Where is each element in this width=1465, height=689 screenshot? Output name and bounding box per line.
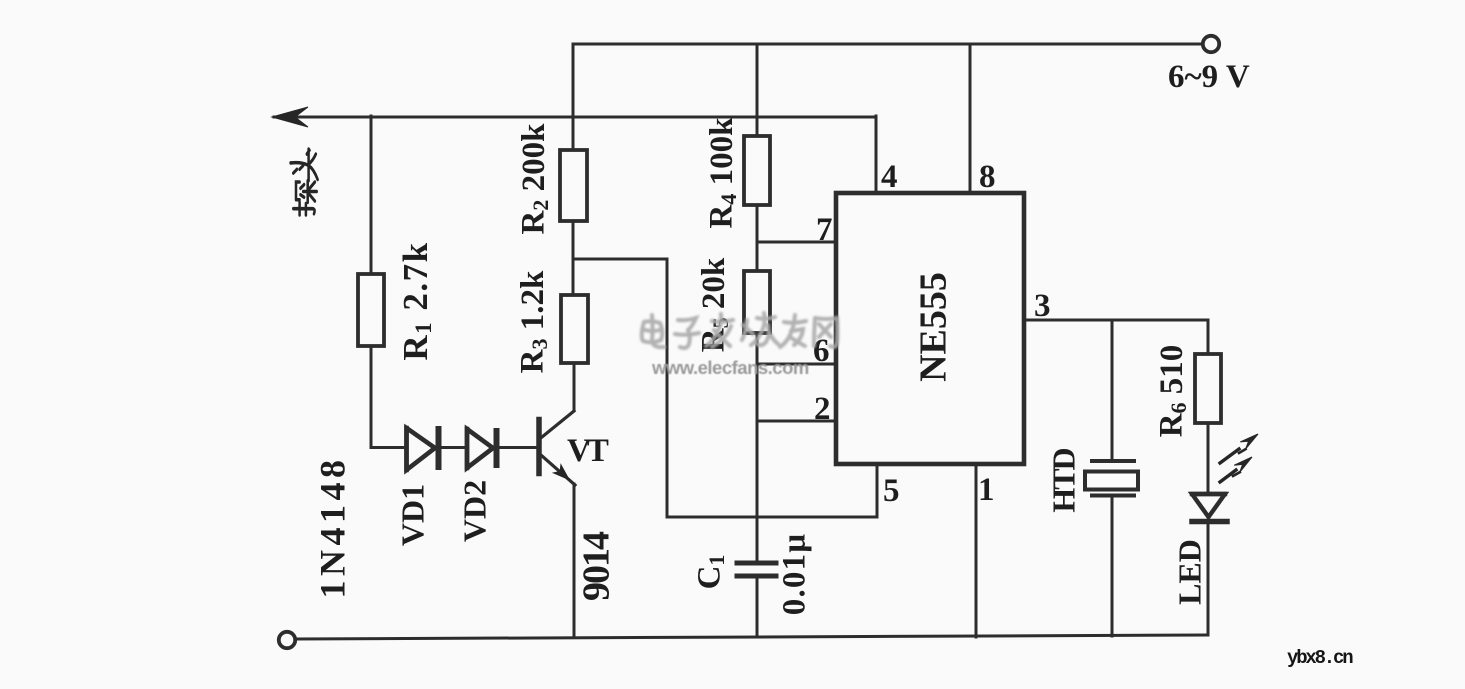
svg-text:VD2: VD2 [456, 480, 492, 542]
svg-text:HTD: HTD [1045, 448, 1081, 512]
label VD1 [394, 484, 430, 546]
探 right part [296, 182, 300, 200]
wire pin1 down to ground rail [975, 464, 978, 637]
wire pin4 drop [875, 116, 878, 192]
label R2 value [516, 123, 553, 235]
wire pin7 [757, 241, 836, 244]
capacitor C1 [737, 563, 776, 576]
svg-text:8: 8 [979, 159, 996, 195]
label VD2 [456, 480, 492, 542]
svg-text:R6 510: R6 510 [1154, 345, 1191, 438]
发 [712, 320, 733, 322]
wire pin3 to R6 [1207, 320, 1210, 354]
label 1N4148 [312, 456, 352, 599]
terminal + supply (open circle) [1203, 36, 1219, 52]
svg-text:5: 5 [883, 473, 900, 509]
label 9014 [576, 531, 618, 601]
label R6 value [1154, 345, 1191, 438]
svg-text:www.elecfans.com: www.elecfans.com [651, 357, 809, 378]
wire pin3 output [1024, 319, 1208, 322]
wire R1 to diodes [371, 346, 405, 448]
terminal - ground (open circle) [279, 632, 295, 648]
头 [293, 169, 297, 173]
op-amp U1 NE555 body [836, 193, 1024, 464]
wire R1 branch down [370, 116, 373, 274]
label R1 value [396, 241, 436, 360]
wire HTD to ground rail [1111, 497, 1114, 636]
LED light ray arrows [1220, 434, 1258, 482]
电 [642, 321, 663, 342]
label C1 [692, 555, 729, 590]
probe arrowhead [272, 107, 308, 127]
label LED [1171, 539, 1207, 605]
wire ground rail [295, 635, 1208, 639]
svg-text:VD1: VD1 [394, 484, 430, 546]
svg-text:2: 2 [814, 391, 831, 427]
wire top supply rail [573, 43, 1202, 46]
resistor R6 body [1195, 354, 1221, 423]
svg-text:9014: 9014 [576, 531, 618, 601]
烧 [742, 320, 747, 340]
探 hand radical [293, 209, 314, 214]
diode VD2 [467, 429, 497, 468]
wire VD2 to base [497, 446, 536, 449]
diode VD1 [407, 428, 439, 470]
svg-text:3: 3 [1034, 288, 1051, 324]
wire R4 top drop from rail [756, 44, 759, 136]
svg-text:NE555: NE555 [913, 272, 955, 382]
watermark 电子发烧友网 [642, 313, 838, 348]
wire R2 top drop from rail [572, 44, 575, 150]
buzzer HTD [1085, 461, 1138, 496]
wire junction to pin5 loop [573, 259, 877, 517]
svg-text:R3 1.2k: R3 1.2k [515, 270, 552, 373]
wire pin6 [757, 363, 836, 366]
svg-text:R4 100k: R4 100k [704, 117, 741, 229]
wire probe line [274, 116, 876, 119]
label probe 探头 (drawn glyphs) [291, 149, 318, 215]
svg-text:1: 1 [978, 472, 995, 508]
网 [814, 318, 838, 347]
svg-text:R2 200k: R2 200k [516, 123, 553, 235]
wire R6 to LED [1207, 423, 1210, 493]
resistor R3 body [561, 295, 588, 363]
label NE555 [913, 272, 955, 382]
友 [784, 321, 806, 323]
wire C1 to ground rail [756, 577, 759, 637]
resistor R5 body [744, 271, 770, 333]
svg-text:VT: VT [567, 433, 609, 469]
svg-text:C1: C1 [692, 555, 729, 590]
label HTD [1045, 448, 1081, 512]
resistor R2 body [560, 150, 587, 221]
transistor VT 9014 [539, 411, 575, 485]
svg-text:4: 4 [881, 159, 898, 195]
LED D1 [1192, 494, 1227, 522]
wire VD1 to VD2 [439, 446, 464, 449]
wire R5 down through pin6 pin2 to C1 [756, 333, 759, 562]
svg-text:R1 2.7k: R1 2.7k [396, 241, 436, 360]
svg-text:0.01μ: 0.01μ [777, 533, 813, 615]
svg-text:1N4148: 1N4148 [312, 456, 352, 599]
wire R2 to R3 with junction [572, 221, 575, 295]
svg-text:6~9 V: 6~9 V [1168, 59, 1250, 95]
resistor R1 body [358, 274, 384, 346]
label R4 value [704, 117, 741, 229]
子 [678, 318, 696, 330]
label R3 value [515, 270, 552, 373]
wire R4 to R5 [756, 205, 759, 271]
wire pin8 drop from rail [969, 44, 972, 192]
svg-text:LED: LED [1171, 539, 1207, 605]
wire pin2 [757, 420, 836, 423]
resistor R4 body [744, 136, 770, 205]
wire HTD branch down [1111, 320, 1114, 459]
label C1 value 0.01u [777, 533, 813, 615]
wire LED to ground rail [1207, 522, 1210, 635]
wire emitter down to ground rail [573, 484, 576, 637]
label R5 value [696, 257, 733, 352]
svg-text:ybx8.cn: ybx8.cn [1287, 647, 1353, 669]
svg-text:7: 7 [816, 212, 833, 248]
wire collector up to R3 [573, 363, 576, 410]
